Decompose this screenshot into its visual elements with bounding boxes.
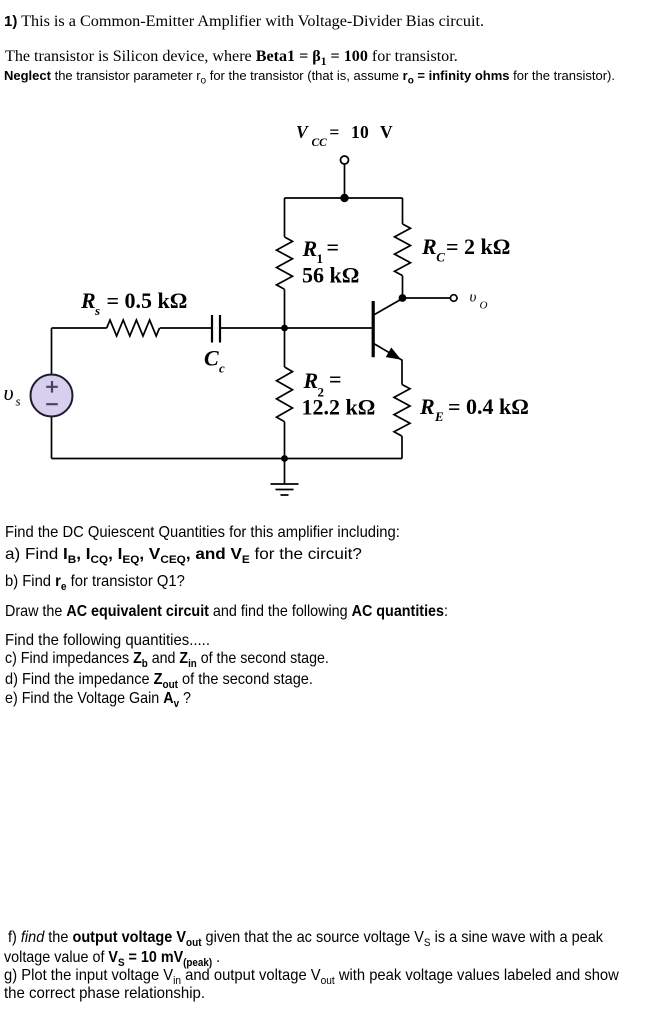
resistor Rs — [107, 320, 160, 336]
header line 2 — [5, 48, 458, 66]
svg-text:R: R — [80, 288, 96, 313]
wire: output — [403, 297, 451, 299]
node: Vcc junction — [340, 194, 348, 202]
svg-text:= 10 V: = 10 V — [329, 122, 393, 142]
svg-text:s: s — [94, 303, 100, 318]
svg-text:R: R — [302, 236, 318, 261]
svg-text:R: R — [303, 368, 319, 393]
wire: Cc to base — [221, 327, 372, 329]
resistor R2 — [277, 367, 293, 422]
header line 3 — [4, 68, 615, 83]
svg-text:CC: CC — [312, 137, 328, 149]
bottom block — [8, 929, 603, 947]
node: collector junction — [399, 294, 407, 302]
circuit schematic SVG — [0, 110, 648, 510]
svg-text:= 0.4 kΩ: = 0.4 kΩ — [448, 394, 529, 419]
resistor R1 — [277, 237, 293, 289]
question block — [5, 524, 400, 542]
svg-text:C: C — [436, 250, 445, 265]
source vs — [31, 375, 73, 417]
resistor RC — [395, 224, 411, 276]
wire: emitter lead down — [401, 360, 403, 385]
ground — [271, 459, 299, 496]
resistor RE — [394, 385, 410, 437]
svg-text:V: V — [296, 122, 309, 142]
capacitor Cc — [212, 315, 220, 343]
svg-text:12.2 kΩ: 12.2 kΩ — [302, 395, 376, 420]
header line 1 — [4, 12, 484, 31]
node: ground junction — [281, 455, 288, 462]
wire: RE bottom lead — [401, 436, 403, 458]
wire: top rail — [285, 197, 403, 199]
svg-text:R: R — [421, 234, 437, 259]
svg-text:=: = — [329, 366, 342, 391]
svg-text:=: = — [327, 235, 340, 260]
wire: R1 bottom lead — [284, 289, 286, 328]
wire: bottom rail — [52, 458, 403, 460]
svg-text:υ: υ — [470, 290, 477, 306]
wire: vs top lead — [51, 328, 53, 375]
wire: mid rail left segment — [52, 327, 107, 329]
wire: vs bottom lead — [51, 417, 53, 459]
wire: R1 top lead — [284, 198, 286, 237]
wire: RC bottom lead — [402, 276, 404, 298]
node: base junction — [281, 325, 288, 332]
svg-text:= 2 kΩ: = 2 kΩ — [446, 234, 510, 259]
svg-text:c: c — [219, 361, 225, 376]
terminal vO — [450, 295, 457, 302]
wire: R2 bottom lead — [284, 422, 286, 459]
svg-text:56 kΩ: 56 kΩ — [302, 262, 359, 287]
terminal Vcc — [341, 156, 349, 164]
svg-text:R: R — [419, 394, 435, 419]
svg-text:= 0.5 kΩ: = 0.5 kΩ — [107, 288, 188, 313]
wire: RC top lead — [402, 198, 404, 224]
svg-text:C: C — [204, 346, 219, 371]
wire: R2 top lead — [284, 328, 286, 367]
svg-text:s: s — [16, 394, 21, 409]
svg-text:E: E — [434, 409, 444, 424]
svg-text:υ: υ — [4, 380, 14, 405]
wire: Vcc stub — [344, 164, 346, 198]
transistor Q1 — [373, 299, 402, 361]
svg-text:O: O — [480, 300, 488, 312]
wire: Rs to Cc — [160, 327, 211, 329]
